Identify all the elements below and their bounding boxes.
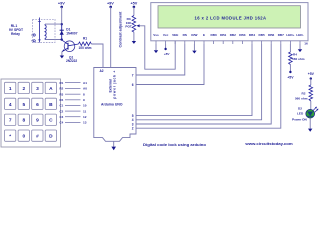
svg-text:9: 9 xyxy=(83,98,85,102)
svg-text:R3: R3 xyxy=(60,92,64,96)
node +5V pot supply xyxy=(130,2,137,9)
svg-text:560 ohm: 560 ohm xyxy=(295,97,308,101)
LCD display green area xyxy=(158,6,301,28)
svg-text:DB3: DB3 xyxy=(239,33,245,37)
svg-text:R1: R1 xyxy=(60,81,64,85)
svg-text:DB5: DB5 xyxy=(258,33,264,37)
svg-text:1: 1 xyxy=(9,86,12,92)
svg-text:1N4007: 1N4007 xyxy=(66,31,77,35)
node +9V left supply xyxy=(58,2,65,9)
node +9V arduino power xyxy=(107,2,114,9)
svg-text:C: C xyxy=(49,118,53,124)
relay contact lever xyxy=(38,18,41,43)
keypad key labels xyxy=(9,86,53,140)
ground under transistor emitter xyxy=(60,52,64,59)
svg-text:Arduino UNO: Arduino UNO xyxy=(101,103,123,107)
svg-text:D2: D2 xyxy=(298,107,302,111)
svg-text:R4: R4 xyxy=(60,98,64,102)
wire +9V down to diode/relay junction xyxy=(61,7,63,24)
svg-text:7: 7 xyxy=(9,118,12,124)
wire pot wiper to LCD VEE xyxy=(140,26,176,69)
svg-text:A: A xyxy=(49,86,53,92)
svg-text:www.circuitstoday.com: www.circuitstoday.com xyxy=(244,141,293,146)
svg-text:4: 4 xyxy=(9,102,12,108)
wire R1 to Arduino A2 xyxy=(91,44,103,68)
svg-text:DB1: DB1 xyxy=(220,33,226,37)
svg-text:Vcc: Vcc xyxy=(163,33,169,37)
svg-text:12: 12 xyxy=(83,115,87,119)
resistor R2 560 ohm xyxy=(295,79,313,101)
svg-text:#: # xyxy=(36,134,39,140)
svg-text:Power ON: Power ON xyxy=(292,118,308,122)
svg-text:R2: R2 xyxy=(302,92,306,96)
svg-text:+5V: +5V xyxy=(308,72,315,76)
svg-text:LED+: LED+ xyxy=(286,33,294,37)
svg-text:E: E xyxy=(203,33,205,37)
svg-text:560 ohm: 560 ohm xyxy=(292,57,305,61)
svg-text:LED-: LED- xyxy=(296,33,303,37)
svg-text:C4: C4 xyxy=(60,121,64,125)
labels arduino right pins xyxy=(132,73,134,130)
LCD pin labels xyxy=(153,33,303,37)
svg-text:A1: A1 xyxy=(83,81,87,85)
svg-text:D: D xyxy=(49,134,53,140)
labels arduino left pins xyxy=(83,81,87,125)
relay RL1 coil xyxy=(45,24,46,39)
svg-text:R4: R4 xyxy=(293,53,297,57)
svg-text:A0: A0 xyxy=(83,87,87,91)
svg-text:DB7: DB7 xyxy=(278,33,284,37)
svg-text:5: 5 xyxy=(22,102,25,108)
wire relay coil bottom xyxy=(45,39,62,41)
ground under pot R3 xyxy=(132,32,136,44)
wire LCD DB5 to arduino pin4 xyxy=(136,44,262,120)
transistor Q1 2N2222 xyxy=(62,40,79,63)
svg-text:A2: A2 xyxy=(99,69,103,73)
svg-text:C2: C2 xyxy=(60,109,64,113)
svg-text:7: 7 xyxy=(132,73,134,77)
svg-text:+5V: +5V xyxy=(164,52,171,56)
node +5V on LCD Vcc xyxy=(164,44,171,56)
ground on LCD R/W xyxy=(192,44,196,54)
label external power jack (rotated) xyxy=(109,71,117,99)
svg-text:power jack +: power jack + xyxy=(113,71,117,99)
svg-text:0: 0 xyxy=(22,134,25,140)
svg-text:6: 6 xyxy=(132,83,134,87)
diode D1 1N4007 xyxy=(60,24,78,40)
wire LCD DB6 to arduino pin3 xyxy=(136,44,271,124)
svg-text:+5V: +5V xyxy=(130,2,137,6)
svg-text:DB0: DB0 xyxy=(210,33,216,37)
svg-text:Digital code lock using arduin: Digital code lock using arduino xyxy=(143,142,207,147)
ground on LCD Vss xyxy=(154,44,158,53)
svg-text:+9V: +9V xyxy=(58,2,65,6)
svg-text:8: 8 xyxy=(22,118,25,124)
svg-text:RS: RS xyxy=(183,33,187,37)
wire LCD DB7 to arduino pin2 xyxy=(136,44,281,128)
svg-text:13: 13 xyxy=(83,121,87,125)
ground under LED D2 xyxy=(308,118,312,132)
node junction dot top of D1 xyxy=(61,23,63,25)
svg-text:R/W: R/W xyxy=(191,33,197,37)
svg-text:3: 3 xyxy=(36,86,39,92)
svg-text:10: 10 xyxy=(83,104,87,108)
LCD module outer box xyxy=(151,3,308,41)
LCD pin stubs xyxy=(156,41,300,44)
svg-text:9: 9 xyxy=(36,118,39,124)
svg-text:*: * xyxy=(9,134,11,140)
svg-text:Vss: Vss xyxy=(153,33,159,37)
keypad box xyxy=(1,79,61,147)
LED D2 power on xyxy=(292,101,318,122)
node junction dot bottom of D1 xyxy=(61,38,63,40)
svg-text:Relay: Relay xyxy=(11,32,20,36)
svg-text:2: 2 xyxy=(132,127,134,131)
svg-text:POT: POT xyxy=(125,24,131,28)
wire +9V to power jack xyxy=(110,7,112,68)
keypad keys xyxy=(5,82,57,141)
svg-text:VEE: VEE xyxy=(172,33,178,37)
label relay RL1 xyxy=(9,24,24,36)
wires keypad to arduino xyxy=(65,83,81,123)
relay RL1 dashed box xyxy=(33,19,56,42)
wire LCD DB4 to arduino pin5 xyxy=(136,44,252,116)
svg-text:R1: R1 xyxy=(83,36,87,40)
node +5V above R2 xyxy=(308,72,315,80)
svg-text:16: 16 xyxy=(304,41,308,45)
ground under arduino xyxy=(111,141,116,150)
wire LCD RS to arduino pin7 xyxy=(136,44,185,75)
relay terminal circles xyxy=(31,34,35,42)
svg-text:2: 2 xyxy=(22,86,25,92)
node +5V under R4 xyxy=(287,65,294,80)
potentiometer R3 10K xyxy=(125,7,139,32)
svg-text:8: 8 xyxy=(83,92,85,96)
svg-text:2N2222: 2N2222 xyxy=(66,59,77,63)
svg-text:+5V: +5V xyxy=(287,76,294,80)
svg-text:DB4: DB4 xyxy=(249,33,255,37)
svg-text:6: 6 xyxy=(36,102,39,108)
Arduino UNO board outline xyxy=(94,68,136,142)
svg-text:16 x 2 LCD MODULE JHD 162A: 16 x 2 LCD MODULE JHD 162A xyxy=(195,16,267,21)
ground on LCD LED- pin16 xyxy=(298,41,308,52)
keypad pin labels R1-R4 C1-C4 xyxy=(60,81,64,125)
svg-text:R2: R2 xyxy=(60,87,64,91)
svg-text:C1: C1 xyxy=(60,104,64,108)
svg-text:DB6: DB6 xyxy=(268,33,274,37)
resistor R1 100 ohm xyxy=(79,36,92,49)
resistor R4 560 ohm on LED+ xyxy=(289,44,305,65)
svg-text:11: 11 xyxy=(83,109,87,113)
wire relay coil top xyxy=(45,23,62,25)
svg-text:DB2: DB2 xyxy=(230,33,236,37)
svg-text:C3: C3 xyxy=(60,115,64,119)
svg-text:+9V: +9V xyxy=(107,2,114,6)
svg-text:LED: LED xyxy=(297,112,304,116)
svg-text:B: B xyxy=(49,102,53,108)
wire LCD E to arduino pin6 xyxy=(136,44,204,85)
svg-text:Contrast adjustment: Contrast adjustment xyxy=(119,11,123,48)
svg-text:100 ohm: 100 ohm xyxy=(79,46,92,50)
